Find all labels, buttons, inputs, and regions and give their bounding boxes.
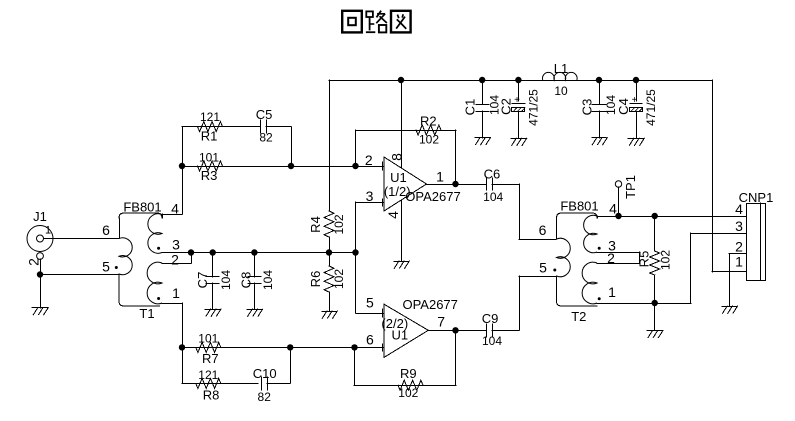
svg-text:471/25: 471/25 [526, 89, 540, 126]
svg-text:5: 5 [102, 258, 110, 274]
svg-text:R6: R6 [308, 271, 323, 288]
svg-text:3: 3 [172, 236, 180, 252]
svg-text:FB801: FB801 [123, 200, 161, 215]
svg-text:C6: C6 [484, 167, 501, 182]
svg-text:1: 1 [436, 168, 444, 184]
svg-text:104: 104 [261, 270, 275, 290]
svg-text:6: 6 [366, 332, 374, 348]
svg-text:R3: R3 [201, 168, 218, 183]
svg-text:C8: C8 [239, 272, 254, 289]
svg-text:1: 1 [735, 253, 743, 269]
svg-text:R1: R1 [201, 129, 218, 144]
svg-text:R7: R7 [202, 351, 219, 366]
svg-text:1: 1 [172, 285, 180, 301]
svg-text:2: 2 [171, 251, 179, 267]
svg-text:102: 102 [659, 250, 673, 270]
svg-text:6: 6 [102, 222, 110, 238]
svg-text:4: 4 [385, 211, 401, 219]
svg-text:102: 102 [398, 386, 418, 400]
svg-text:104: 104 [219, 270, 233, 290]
svg-text:R4: R4 [308, 216, 323, 233]
svg-text:+: + [514, 95, 520, 106]
svg-text:3: 3 [366, 188, 374, 204]
svg-text:J1: J1 [33, 209, 47, 224]
svg-text:8: 8 [388, 153, 404, 161]
svg-text:7: 7 [437, 313, 445, 329]
svg-text:4: 4 [735, 201, 743, 217]
svg-text:C9: C9 [482, 311, 499, 326]
svg-text:CNP1: CNP1 [739, 190, 774, 205]
svg-text:5: 5 [366, 294, 374, 310]
svg-text:C7: C7 [195, 272, 210, 289]
svg-text:U1: U1 [390, 170, 407, 185]
svg-text:4: 4 [171, 200, 179, 216]
svg-text:10: 10 [554, 84, 568, 98]
svg-text:T1: T1 [139, 306, 154, 321]
svg-text:82: 82 [258, 390, 272, 404]
svg-text:102: 102 [332, 214, 346, 234]
svg-text:101: 101 [199, 151, 219, 165]
svg-text:121: 121 [200, 110, 220, 124]
svg-text:2: 2 [607, 250, 615, 266]
svg-text:6: 6 [539, 222, 547, 238]
svg-text:2: 2 [735, 238, 743, 254]
svg-text:2: 2 [365, 152, 373, 168]
svg-text:1: 1 [608, 284, 616, 300]
svg-text:471/25: 471/25 [644, 89, 658, 126]
svg-text:104: 104 [483, 190, 503, 204]
svg-text:+: + [632, 95, 638, 106]
svg-text:104: 104 [482, 334, 502, 348]
svg-text:OPA2677: OPA2677 [405, 189, 460, 204]
svg-text:C10: C10 [253, 366, 277, 381]
svg-text:C4: C4 [616, 98, 631, 115]
svg-text:121: 121 [198, 368, 218, 382]
svg-text:5: 5 [539, 259, 547, 275]
svg-text:R2: R2 [420, 113, 437, 128]
svg-text:C3: C3 [580, 99, 595, 116]
svg-text:T2: T2 [571, 309, 586, 324]
svg-text:FB801: FB801 [560, 199, 598, 214]
svg-text:TP1: TP1 [623, 175, 638, 199]
svg-text:101: 101 [198, 332, 218, 346]
svg-text:82: 82 [259, 131, 273, 145]
svg-text:102: 102 [419, 133, 439, 147]
svg-text:R5: R5 [636, 251, 651, 268]
svg-text:U1: U1 [391, 328, 408, 343]
svg-text:C2: C2 [499, 98, 514, 115]
svg-text:R8: R8 [203, 388, 220, 403]
svg-text:C1: C1 [463, 99, 478, 116]
svg-text:R9: R9 [400, 366, 417, 381]
svg-text:3: 3 [735, 218, 743, 234]
svg-text:OPA2677: OPA2677 [402, 297, 457, 312]
svg-text:4: 4 [609, 200, 617, 216]
svg-text:102: 102 [332, 269, 346, 289]
svg-text:C5: C5 [256, 107, 273, 122]
